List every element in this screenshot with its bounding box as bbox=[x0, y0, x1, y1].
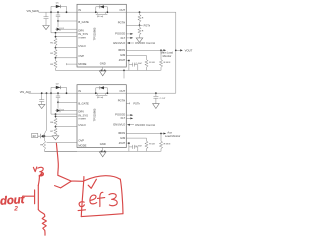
wire GND pin (bottom) bbox=[102, 148, 104, 152]
svg-text:ON/OFF Control: ON/OFF Control bbox=[135, 123, 155, 127]
svg-text:OVP: OVP bbox=[78, 54, 84, 58]
wire ITIMER tee bbox=[56, 33, 78, 38]
resistor RIMON (top) bbox=[159, 50, 162, 70]
svg-text:R: R bbox=[142, 18, 144, 20]
svg-text:UVLO: UVLO bbox=[78, 44, 85, 48]
svg-text:UVLO: UVLO bbox=[78, 123, 85, 127]
wire ILIM bbox=[126, 56, 146, 60]
capacitor C1 input bbox=[44, 12, 49, 25]
wire EN on/off (bottom) bbox=[127, 124, 130, 126]
wire VOUT rail bbox=[175, 12, 177, 93]
svg-text:PGTH: PGTH bbox=[118, 99, 126, 103]
svg-text:2: 2 bbox=[13, 206, 18, 213]
red annotation: letter e bbox=[90, 195, 97, 204]
red annotation: pointer line from schematic bbox=[56, 143, 58, 175]
red annotation: box left edge bbox=[81, 177, 84, 217]
svg-text:IN_SYS: IN_SYS bbox=[78, 113, 88, 117]
capacitor CdVdT (top) bbox=[129, 63, 138, 71]
resistor R8 MODE bbox=[43, 136, 77, 151]
wire PGOOD arrow (bottom) bbox=[126, 114, 130, 116]
transistor Q1 bbox=[57, 21, 59, 27]
diode D2 bbox=[56, 86, 61, 89]
svg-text:PGTh: PGTh bbox=[144, 24, 151, 27]
wire IMON bbox=[126, 49, 163, 51]
svg-text:dVdT: dVdT bbox=[119, 58, 126, 62]
svg-text:IN: IN bbox=[78, 8, 81, 12]
wire FLT arrow (bottom) bbox=[126, 117, 130, 119]
red annotation: V3 arrow hook bbox=[39, 172, 43, 176]
transistor Q3 bbox=[38, 134, 41, 139]
red annotation: MOSFET channel bar bbox=[37, 185, 39, 209]
wire MODE branch vertical bbox=[45, 93, 47, 136]
node VOUT tap bbox=[175, 50, 177, 52]
svg-text:R IMON: R IMON bbox=[164, 62, 171, 64]
wire UVLO (bottom) bbox=[56, 126, 78, 128]
svg-text:R ILIM: R ILIM bbox=[149, 62, 155, 64]
svg-text:PGTH: PGTH bbox=[118, 21, 126, 25]
svg-text:EN/UVLO: EN/UVLO bbox=[113, 41, 125, 45]
capacitor CdVdT (bottom) bbox=[129, 145, 138, 152]
resistor R4 PGTH upper bbox=[138, 12, 141, 25]
red annotation: MOSFET source bbox=[38, 210, 44, 217]
U2 internal body diode bbox=[96, 88, 108, 93]
wire VOUT tap bbox=[176, 49, 180, 51]
transistor Q2 bbox=[57, 102, 59, 108]
red annotation: loop on box left edge bbox=[79, 202, 84, 207]
svg-text:Main Load: Main Load bbox=[161, 51, 174, 55]
wire VIN_AUX to IN bbox=[29, 92, 78, 94]
red annotation: MOSFET drain bbox=[38, 176, 39, 186]
U1 internal FET gates bbox=[96, 12, 108, 14]
resistor R3 bbox=[54, 58, 57, 71]
wire MODE stub bbox=[67, 63, 78, 65]
svg-text:R6: R6 bbox=[50, 122, 54, 124]
resistor R5 PGTH lower bbox=[138, 25, 141, 38]
svg-text:PGTh: PGTh bbox=[133, 102, 140, 105]
svg-text:dout: dout bbox=[0, 194, 26, 208]
resistor RIMON (bottom) bbox=[159, 134, 162, 152]
wire diode loop bbox=[51, 6, 67, 12]
wire IMON (bottom) bbox=[126, 133, 163, 135]
svg-text:(M: int): (M: int) bbox=[97, 15, 104, 18]
svg-text:FLT: FLT bbox=[121, 116, 126, 120]
capacitor C4 (B_GATE) bbox=[56, 93, 60, 102]
svg-text:MODE: MODE bbox=[78, 62, 86, 66]
svg-text:EN/UVLO: EN/UVLO bbox=[113, 122, 125, 126]
resistor R6 bbox=[54, 118, 57, 127]
capacitor COUT bbox=[153, 93, 158, 103]
wire rail link down bbox=[123, 70, 125, 78]
capacitor C2 (B_GATE) bbox=[56, 12, 60, 21]
svg-text:dVdT: dVdT bbox=[119, 141, 126, 145]
wire chain link stub bbox=[45, 135, 53, 137]
node chain top (bottom) bbox=[55, 113, 57, 115]
svg-text:C dVdT: C dVdT bbox=[136, 63, 142, 65]
svg-text:OUT: OUT bbox=[120, 8, 126, 12]
svg-text:D2: D2 bbox=[56, 84, 60, 86]
U1 internal VIN-VOUT bus wire bbox=[77, 11, 126, 13]
wire GND pin bbox=[102, 67, 104, 70]
node junction dots on IN wire bbox=[50, 11, 52, 13]
wire IN_SYS bbox=[51, 12, 77, 33]
svg-text:(M: int): (M: int) bbox=[97, 96, 104, 99]
svg-text:TPS25985: TPS25985 bbox=[93, 27, 97, 40]
svg-text:1M: 1M bbox=[32, 136, 35, 138]
capacitor C3 input bbox=[39, 93, 44, 104]
red annotation: tick across box edge bbox=[78, 209, 85, 212]
svg-text:R: R bbox=[142, 30, 144, 32]
wire OUT (bottom) to VOUT rail bbox=[126, 92, 176, 94]
svg-text:IN_SYS: IN_SYS bbox=[78, 32, 88, 36]
resistor R7 bbox=[54, 127, 57, 136]
wire B_GATE (bottom) bbox=[58, 101, 77, 103]
svg-text:C dVdT: C dVdT bbox=[136, 145, 142, 147]
wire UVLO bbox=[56, 47, 78, 49]
ground rail (top block) bbox=[56, 69, 161, 71]
wire PGTH to pin bbox=[126, 24, 142, 26]
U2 internal FET gates bbox=[96, 93, 108, 95]
red annotation: label V3 bbox=[33, 167, 36, 172]
wire B_GATE bbox=[58, 20, 77, 22]
svg-text:VIN_MAIN: VIN_MAIN bbox=[27, 9, 39, 13]
wire DRV bbox=[60, 28, 77, 30]
component D4 box bbox=[32, 133, 38, 137]
red annotation: arrowhead bbox=[55, 175, 72, 188]
diode D1 bbox=[56, 5, 61, 8]
red annotation: letter f bbox=[98, 192, 105, 206]
ground (U2 GND) bbox=[99, 152, 106, 157]
resistor R2 bbox=[54, 48, 57, 58]
ground (C3) bbox=[39, 104, 45, 108]
ground (U1 GND) bbox=[99, 71, 106, 76]
svg-text:OVP: OVP bbox=[78, 139, 84, 143]
svg-text:Monitor: Monitor bbox=[163, 54, 172, 58]
node B_GATE bbox=[57, 20, 59, 22]
red annotation: box right edge bbox=[120, 179, 123, 213]
svg-text:PGOOD: PGOOD bbox=[115, 32, 125, 36]
node UVLO bbox=[55, 47, 57, 49]
svg-text:C OUT: C OUT bbox=[160, 98, 166, 100]
svg-text:D1: D1 bbox=[56, 3, 60, 5]
node MODE branch bbox=[46, 92, 48, 94]
svg-text:R1: R1 bbox=[50, 42, 54, 44]
red annotation: MOSFET gate lead bbox=[24, 195, 34, 197]
wire OVP bbox=[56, 57, 78, 59]
wire OUT (top) bbox=[126, 11, 176, 13]
node PGTH bbox=[139, 24, 141, 26]
svg-text:IMON: IMON bbox=[118, 48, 125, 52]
wire IN_SYS (bottom) bbox=[51, 93, 77, 114]
svg-text:Load Monitor: Load Monitor bbox=[165, 134, 181, 138]
wire dVdT (bottom) bbox=[126, 143, 129, 151]
svg-text:ON/OFF Control: ON/OFF Control bbox=[135, 41, 155, 45]
node chain top bbox=[55, 32, 57, 34]
svg-text:GND: GND bbox=[100, 61, 106, 65]
svg-text:B_GATE: B_GATE bbox=[78, 20, 89, 24]
red annotation: source resistor zigzag bbox=[42, 216, 46, 235]
op-amp U2 IC body TPS25985 (bottom eFuse) bbox=[77, 85, 126, 148]
svg-text:ILIM: ILIM bbox=[120, 136, 126, 140]
node rail link bbox=[123, 70, 125, 72]
svg-text:R ILIM: R ILIM bbox=[149, 143, 155, 145]
wire ILIM (bottom) bbox=[126, 138, 146, 141]
svg-text:B_GATE: B_GATE bbox=[78, 102, 89, 106]
svg-text:ITIMER: ITIMER bbox=[78, 38, 86, 40]
op-amp U1 IC body TPS25985 (top eFuse) bbox=[77, 4, 126, 67]
node UVLO (bottom) bbox=[55, 126, 57, 128]
wire VIN_MAIN to IN bbox=[39, 11, 78, 13]
svg-text:ITIMER: ITIMER bbox=[78, 119, 86, 121]
wire OVP link (bottom) bbox=[47, 141, 78, 143]
svg-text:IN: IN bbox=[78, 89, 81, 93]
red annotation: link to box bbox=[71, 180, 83, 182]
ground (COUT) bbox=[153, 104, 160, 109]
wire PGOOD arrow bbox=[126, 33, 130, 35]
svg-text:DRV: DRV bbox=[78, 28, 84, 32]
svg-text:VOUT: VOUT bbox=[185, 48, 193, 52]
resistor R1 bbox=[54, 38, 57, 47]
ground (UVLO divider) bbox=[52, 136, 59, 140]
red annotation: box top edge bbox=[84, 176, 120, 181]
wire ITIMER tee (bottom) bbox=[56, 114, 78, 118]
node B_GATE (bottom) bbox=[57, 101, 59, 103]
node PGTH divider top bbox=[139, 11, 141, 13]
ground (C1) bbox=[43, 26, 49, 30]
svg-text:FLT: FLT bbox=[121, 36, 126, 40]
U2 internal VIN-VOUT bus wire bbox=[77, 92, 126, 94]
wire dVdT bbox=[126, 61, 129, 71]
resistor RILIM (top) bbox=[145, 60, 148, 71]
U1 internal body diode bbox=[96, 7, 108, 12]
svg-text:IMON: IMON bbox=[118, 131, 125, 135]
svg-text:PGOOD: PGOOD bbox=[115, 113, 125, 117]
wire EN on/off bbox=[127, 42, 130, 44]
red annotation: check mark in box bbox=[88, 179, 96, 188]
node junction dots on AUX IN wire bbox=[50, 92, 52, 94]
red annotation: MOSFET gate bar bbox=[34, 190, 36, 204]
svg-text:DRV: DRV bbox=[78, 110, 84, 114]
wire PGTH stub (bottom) bbox=[126, 102, 129, 104]
svg-text:TPS25985: TPS25985 bbox=[93, 108, 97, 121]
resistor RILIM (bottom) bbox=[145, 141, 148, 151]
svg-text:R3: R3 bbox=[50, 64, 54, 66]
node OVP bbox=[55, 57, 57, 59]
ground rail (bottom block) bbox=[45, 150, 161, 152]
red annotation: box bottom edge bbox=[81, 214, 123, 217]
svg-text:Aux: Aux bbox=[167, 130, 172, 134]
red annotation: digit 3 bbox=[109, 194, 117, 206]
svg-text:MODE: MODE bbox=[78, 143, 86, 147]
wire diode loop (bottom) bbox=[51, 87, 67, 93]
ground (PGTH divider) bbox=[136, 38, 143, 43]
svg-text:GND: GND bbox=[100, 142, 106, 146]
svg-text:ILIM: ILIM bbox=[120, 53, 126, 57]
svg-text:R2: R2 bbox=[50, 53, 54, 55]
wire FLT arrow bbox=[126, 37, 130, 39]
svg-text:OUT: OUT bbox=[120, 89, 126, 93]
node COUT bbox=[155, 92, 157, 94]
wire DRV (bottom) bbox=[60, 110, 77, 112]
svg-text:R IMON: R IMON bbox=[164, 144, 171, 146]
